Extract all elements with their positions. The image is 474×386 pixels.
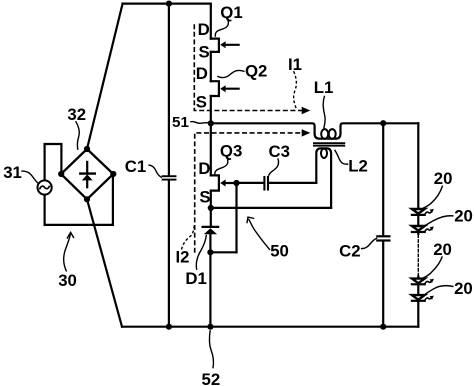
wire rail Q1-Q2: [210, 52, 212, 81]
leader C3: [269, 158, 279, 175]
wire Q3 source to L2 right: [211, 207, 331, 209]
wire LED2 down stub: [417, 232, 419, 234]
node Q3 gate junction: [233, 180, 239, 186]
svg-text:32: 32: [67, 105, 86, 124]
diode D1 bar: [203, 226, 219, 228]
svg-text:30: 30: [58, 271, 77, 290]
leader L1: [323, 96, 325, 129]
inductor L1 loop 1: [321, 129, 328, 139]
AC source 31 circle: [38, 180, 52, 194]
LED 1: [412, 209, 434, 215]
svg-text:S: S: [199, 43, 210, 62]
wire bottom bus: [122, 326, 418, 328]
transistor Q2 channel: [211, 81, 219, 96]
leader arrow 30: [64, 232, 74, 271]
wire dashed LED continuation: [417, 235, 419, 276]
transistor Q1 gate arrow: [220, 41, 238, 48]
svg-text:51: 51: [172, 114, 189, 131]
node bridge bottom vertex: [84, 196, 90, 202]
wire LED string top: [417, 123, 419, 209]
wire inductor L1 primary with loops: [211, 123, 418, 138]
current path I1 dashed: [194, 24, 310, 114]
wire top bus: [123, 2, 211, 4]
bridge inner diode lead lower: [86, 180, 88, 187]
svg-text:50: 50: [270, 241, 289, 260]
wire main rail top segment: [210, 4, 212, 39]
wire L2 left to C3: [269, 182, 316, 184]
wire AC source to bridge right (lower loop): [45, 174, 113, 225]
LED 2: [412, 226, 434, 232]
transistor Q3 gate arrow: [220, 180, 236, 187]
bridge inner diode lead: [86, 162, 88, 173]
leader Q1: [215, 19, 228, 37]
svg-text:L1: L1: [314, 78, 334, 97]
wire diagonal from bridge top to top bus: [87, 4, 123, 149]
transistor Q1 channel: [211, 39, 219, 52]
svg-text:I2: I2: [176, 248, 190, 267]
leader arrow 50: [247, 217, 270, 250]
svg-text:C3: C3: [269, 142, 290, 161]
svg-text:Q1: Q1: [220, 3, 242, 22]
leader C1: [148, 165, 162, 177]
LED 4: [412, 295, 434, 301]
node top junction: [166, 1, 172, 7]
svg-text:L2: L2: [348, 157, 368, 176]
wire LED1-LED2: [417, 215, 419, 226]
leader Q2: [217, 70, 244, 77]
AC source sine symbol: [40, 186, 50, 189]
transformer core line 2: [314, 145, 344, 147]
svg-text:C1: C1: [125, 157, 146, 176]
leader 51: [190, 121, 208, 123]
leader 31: [21, 171, 38, 183]
svg-text:Q2: Q2: [245, 62, 267, 81]
leader L2: [335, 150, 349, 164]
wire diagonal from bridge bottom to bottom bus: [87, 199, 122, 326]
LED 3: [412, 279, 434, 285]
node bridge right vertex: [110, 171, 116, 177]
node Q3 source: [208, 205, 214, 211]
leader 32: [76, 121, 80, 150]
transistor Q3 channel: [211, 175, 219, 190]
node C2 bottom: [380, 324, 386, 330]
node 52: [207, 324, 213, 330]
leader I1 dashed: [294, 71, 297, 108]
node C2 top: [380, 120, 386, 126]
svg-text:D: D: [198, 159, 210, 178]
bridge inner diode triangle: [82, 174, 93, 180]
wire gate junction down: [235, 183, 237, 252]
leader 20 fourth: [425, 286, 453, 294]
leader 20 third: [423, 256, 442, 277]
wire rail Q2-Q3: [210, 96, 212, 175]
node bridge left vertex: [58, 171, 64, 177]
svg-text:20: 20: [433, 240, 452, 259]
svg-text:20: 20: [454, 207, 473, 226]
wire LED3-LED4: [417, 284, 419, 295]
wire LED string bottom: [417, 301, 419, 327]
svg-text:D: D: [198, 20, 210, 39]
svg-text:I1: I1: [288, 55, 302, 74]
svg-text:D: D: [196, 64, 208, 83]
wire rail Q3 to D1: [210, 191, 212, 226]
wire LED3 up stub: [417, 277, 419, 279]
transformer core line 1: [314, 142, 344, 144]
leader 20 first: [423, 186, 442, 208]
svg-text:S: S: [196, 92, 207, 111]
wire rail D1 to bottom bus: [209, 234, 211, 327]
svg-text:31: 31: [3, 163, 22, 182]
capacitor C2: [377, 123, 389, 327]
node C1 bottom: [166, 324, 172, 330]
svg-text:D1: D1: [185, 269, 206, 288]
capacitor C1: [163, 4, 176, 327]
transistor Q2 gate arrow: [220, 85, 238, 92]
leader D1: [196, 235, 206, 270]
leader 52: [209, 330, 213, 368]
node D1 anode: [207, 249, 213, 255]
wire AC source to bridge left (upper loop): [45, 144, 62, 180]
svg-text:Q3: Q3: [220, 141, 242, 160]
svg-text:52: 52: [202, 370, 221, 386]
inductor L1 loop 2: [329, 129, 336, 139]
leader C2: [361, 238, 377, 249]
svg-text:S: S: [199, 187, 210, 206]
leader I2 dashed: [182, 224, 195, 250]
wire to D1 anode node: [210, 251, 236, 253]
capacitor C3: [237, 177, 269, 190]
leader Q3: [215, 158, 228, 174]
svg-text:C2: C2: [339, 241, 360, 260]
svg-text:20: 20: [454, 279, 473, 298]
svg-text:20: 20: [434, 169, 453, 188]
node 51: [208, 120, 214, 126]
inductor L2 loop: [321, 149, 327, 158]
node bridge top vertex: [84, 146, 90, 152]
bridge rectifier 32 diamond: [61, 149, 113, 199]
wire inductor L2 secondary arch: [316, 148, 331, 208]
bridge inner diode bar: [80, 172, 95, 174]
current path I2 dashed: [195, 129, 311, 253]
leader 20 second: [425, 216, 453, 226]
diode D1 triangle: [204, 228, 217, 234]
